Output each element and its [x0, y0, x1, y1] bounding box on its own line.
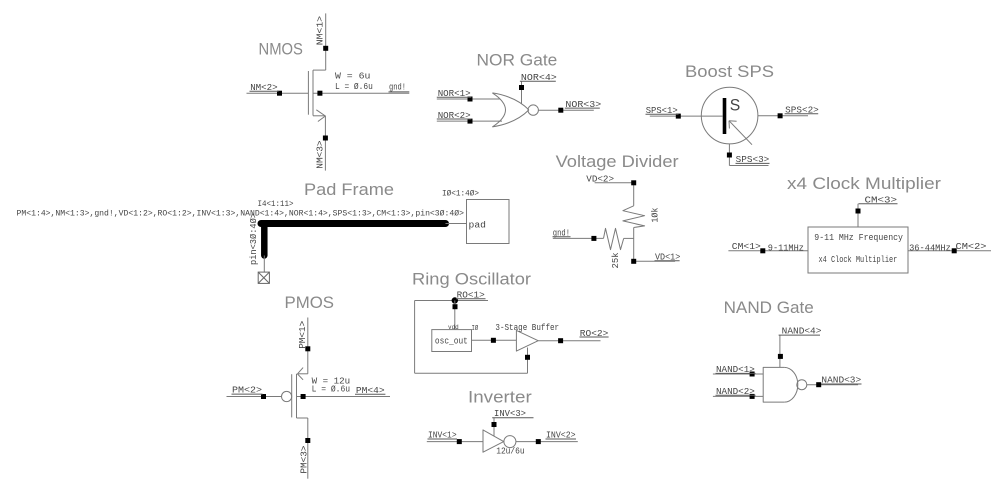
svg-text:NM<3>: NM<3> — [315, 140, 326, 169]
svg-text:Voltage Divider: Voltage Divider — [556, 153, 680, 171]
svg-text:x4 Clock Multiplier: x4 Clock Multiplier — [787, 175, 942, 193]
svg-text:Pad Frame: Pad Frame — [304, 181, 394, 199]
svg-text:IØ<1:4Ø>: IØ<1:4Ø> — [442, 188, 479, 198]
svg-text:PM<1>: PM<1> — [297, 320, 308, 348]
svg-text:VD<2>: VD<2> — [586, 173, 614, 184]
svg-text:S: S — [730, 96, 741, 115]
svg-text:NOR Gate: NOR Gate — [477, 52, 558, 70]
svg-text:CM<2>: CM<2> — [956, 241, 987, 252]
svg-text:NAND Gate: NAND Gate — [724, 299, 814, 317]
svg-text:CM<1>: CM<1> — [732, 241, 761, 252]
svg-text:Inverter: Inverter — [468, 389, 532, 407]
svg-text:PM<3>: PM<3> — [299, 445, 310, 473]
svg-text:Ring Oscillator: Ring Oscillator — [412, 271, 532, 289]
svg-text:vdd: vdd — [448, 324, 459, 331]
svg-text:12u/6u: 12u/6u — [496, 446, 525, 457]
svg-text:INV<3>: INV<3> — [494, 408, 526, 419]
svg-text:IØ: IØ — [472, 324, 479, 333]
svg-text:pad: pad — [469, 219, 487, 230]
svg-text:3-Stage Buffer: 3-Stage Buffer — [495, 322, 559, 333]
svg-text:NMOS: NMOS — [259, 40, 303, 58]
svg-text:L = Ø.6u: L = Ø.6u — [312, 384, 351, 395]
svg-text:25k: 25k — [610, 252, 621, 268]
svg-text:9-11 MHz Frequency: 9-11 MHz Frequency — [814, 233, 903, 243]
svg-text:36-44MHz: 36-44MHz — [909, 242, 951, 253]
svg-text:PM<1:4>,NM<1:3>,gnd!,VD<1:2>,R: PM<1:4>,NM<1:3>,gnd!,VD<1:2>,RO<1:2>,INV… — [17, 208, 465, 218]
svg-text:osc_out: osc_out — [435, 336, 468, 346]
svg-text:PMOS: PMOS — [285, 294, 335, 312]
svg-text:gnd!: gnd! — [389, 81, 406, 92]
svg-text:NM<1>: NM<1> — [315, 15, 326, 45]
svg-text:9-11MHz: 9-11MHz — [768, 242, 804, 253]
svg-text:L = Ø.6u: L = Ø.6u — [335, 81, 373, 92]
svg-text:W = 6u: W = 6u — [335, 71, 370, 82]
svg-text:pin<3Ø:4Ø>: pin<3Ø:4Ø> — [248, 213, 259, 265]
svg-text:Boost SPS: Boost SPS — [685, 63, 774, 81]
svg-text:1Øk: 1Øk — [649, 207, 660, 222]
svg-text:I4<1:11>: I4<1:11> — [258, 199, 294, 209]
svg-text:x4 Clock Multiplier: x4 Clock Multiplier — [819, 255, 898, 265]
